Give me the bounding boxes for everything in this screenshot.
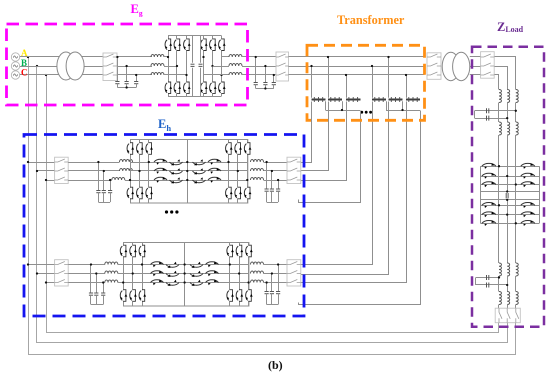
- wire secondary W2c to Eh row2: [301, 102, 407, 283]
- wire secondary W1a to Eh row1: [301, 102, 312, 163]
- svg-text:(b): (b): [268, 358, 283, 372]
- wire phase C return (source C to load bottom): [47, 75, 499, 333]
- wire Eh row feeders: [28, 264, 55, 266]
- load inductor L4c: [516, 292, 518, 305]
- wire to load rectifier: [498, 135, 500, 263]
- inductor Lc2: [229, 73, 242, 75]
- load inductor L4a: [499, 292, 501, 305]
- wire secondary W2a to Eh row2: [301, 102, 373, 265]
- Eh boundary box: [24, 135, 304, 317]
- wire inductor to cell: [118, 264, 123, 266]
- svg-text:Eh: Eh: [158, 117, 171, 133]
- wire winding common bus 2: [386, 101, 388, 110]
- node source C tap: [45, 74, 47, 76]
- load inductor L2b: [507, 122, 509, 135]
- load inductor L2c: [516, 122, 518, 135]
- wire secondary W1 neutral to Eh row1: [299, 111, 361, 203]
- circuit breaker CB5 (load bottom): [495, 308, 520, 323]
- bidirectional switches row 2 (left cell): [151, 270, 164, 276]
- load inductor L2a: [499, 122, 501, 135]
- rectifier leg 2 (Eg): [176, 36, 178, 96]
- inductor La1: [151, 55, 164, 57]
- diode cell row 4 left: [480, 205, 539, 207]
- load inductor L1a: [499, 90, 501, 103]
- bidirectional switches row 1 (right cell): [190, 262, 203, 268]
- wire winding W5 tap: [388, 57, 390, 98]
- wire to rectifier: [164, 56, 168, 58]
- load rectifier left rail: [480, 166, 482, 223]
- bidirectional switches row 2 (left cell): [154, 168, 167, 174]
- svg-text:A: A: [21, 48, 28, 58]
- bidirectional switches row 3 (right cell): [190, 280, 203, 286]
- circuit breaker CB2: [276, 52, 289, 81]
- circuit breaker (Eh row right): [287, 260, 301, 286]
- inductor Lc1: [151, 73, 164, 75]
- IGBT leg (Eh row left cell, col 3): [148, 140, 150, 204]
- bidirectional switches row 1 (right cell): [193, 159, 206, 165]
- bidirectional switches row 2 (right cell): [193, 168, 206, 174]
- load inductor L3b: [507, 263, 509, 276]
- diode cell row 5 left: [480, 214, 539, 216]
- diode cell row 6 right: [521, 220, 535, 226]
- wire load phase A: [495, 57, 516, 90]
- filter capacitors (Eh row right): [278, 265, 280, 292]
- wire secondary W1c to Eh row1: [301, 102, 347, 181]
- inverter leg 2 (Eg): [212, 36, 214, 96]
- load capacitor bank 1: [475, 110, 516, 112]
- filter capacitors (Eh row right): [266, 162, 268, 189]
- rectifier leg 1 (Eg): [168, 36, 170, 96]
- Transformer boundary box: [307, 45, 425, 120]
- converter cell modules (Eh row): [124, 243, 249, 307]
- diode cell row 1 left: [480, 166, 539, 168]
- transformer winding W5: [389, 97, 403, 102]
- transformer winding W3: [346, 97, 361, 102]
- inductor Lb1: [151, 64, 164, 66]
- svg-text:Eg: Eg: [131, 2, 143, 18]
- inverter leg 1 (Eg): [203, 36, 205, 96]
- transformer T1 (grid): [57, 52, 84, 80]
- diode cell row 2 right: [521, 173, 535, 179]
- Z_Load boundary box: [472, 47, 544, 327]
- wire secondary W2b to Eh row2: [301, 102, 389, 275]
- transformer winding W4: [372, 97, 386, 102]
- bidirectional switches row 2 (right cell): [190, 271, 203, 277]
- wire primary phase B (transformer box): [289, 66, 425, 68]
- svg-text:C: C: [21, 68, 28, 78]
- diode cell row 3 right: [521, 181, 535, 187]
- wire Eg output to PCC: [242, 56, 276, 58]
- arm inductors (Eh row right): [251, 160, 264, 162]
- diode cell row 2 left: [480, 176, 539, 178]
- wire to right breaker (Eh row): [264, 264, 288, 266]
- transformer winding W6: [406, 97, 420, 102]
- arm inductors (Eh row left): [120, 160, 133, 162]
- wire breaker to cell (Eh row): [68, 162, 119, 164]
- diode cell row 4 right: [521, 202, 535, 208]
- wire below load rectifier: [506, 190, 508, 192]
- AC source A: [11, 53, 19, 61]
- load inductor L4b: [507, 292, 509, 305]
- phase lines through cells: [130, 162, 247, 164]
- wire winding common bus 1: [325, 101, 327, 110]
- IGBT leg (Eh row left cell, col 1): [130, 140, 132, 204]
- load rectifier right rail: [539, 166, 541, 223]
- diode cell row 1 right: [521, 163, 535, 169]
- wire winding W2 tap: [328, 57, 330, 98]
- wire Eh row feeders: [28, 162, 55, 164]
- wire phase A (Eg chain): [19, 56, 152, 58]
- IGBT leg (Eh row left cell, col 1): [123, 242, 125, 306]
- svg-text:B: B: [21, 58, 27, 68]
- IGBT leg (Eh row right cell, col 2): [239, 242, 241, 306]
- inductor Lb2: [229, 64, 242, 66]
- ellipsis (more Eh rows): [165, 210, 179, 213]
- circuit breaker (Eh row left): [55, 260, 69, 286]
- arm inductors (Eh row left): [105, 262, 118, 264]
- transformer winding W1: [312, 97, 326, 102]
- wire winding W4 tap: [372, 66, 374, 98]
- IGBT leg (Eh row right cell, col 3): [248, 242, 250, 306]
- wire primary phase C (transformer box): [289, 74, 425, 76]
- ellipsis (more windings): [360, 111, 372, 114]
- wire inverter output C: [204, 74, 230, 76]
- svg-text:Transformer: Transformer: [337, 13, 405, 27]
- wire load phase C: [495, 75, 499, 90]
- Eg boundary box: [7, 24, 248, 105]
- arm inductors (Eh row right): [251, 262, 264, 264]
- node source A tap: [27, 56, 29, 58]
- circuit breaker (Eh row left): [55, 157, 69, 183]
- IGBT leg (Eh row left cell, col 3): [142, 242, 144, 306]
- wire inductor to cell: [130, 162, 133, 164]
- IGBT leg (Eh row left cell, col 2): [132, 242, 134, 306]
- wire secondary W1b to Eh row1: [301, 102, 329, 171]
- IGBT leg (Eh row right cell, col 1): [228, 140, 230, 204]
- wire winding W6 tap: [406, 75, 408, 98]
- wire secondary W2 neutral to Eh row2: [299, 111, 421, 305]
- bidirectional switches row 3 (right cell): [193, 177, 206, 183]
- rectifier leg 3 (Eg): [186, 36, 188, 96]
- inverter leg 3 (Eg): [221, 36, 223, 96]
- diode cell row 6 left: [480, 223, 539, 225]
- wire load phase B: [495, 67, 508, 90]
- load inductor L1b: [507, 90, 509, 103]
- wire phase A return (source A to load bottom): [29, 57, 516, 355]
- circuit breaker CB1: [103, 53, 117, 81]
- node source B tap: [36, 65, 38, 67]
- wire inverter output A: [222, 56, 230, 58]
- transformer winding W2: [328, 97, 342, 102]
- IGBT leg (Eh row right cell, col 2): [237, 140, 239, 204]
- inductor La2: [229, 55, 242, 57]
- wire primary phase A (transformer box): [289, 56, 425, 58]
- diode cell row 3 left: [480, 184, 539, 186]
- DC-link capacitor C2 (Eg): [200, 36, 202, 63]
- load capacitor bank 2: [498, 276, 500, 292]
- load inductor L3a: [499, 263, 501, 276]
- load inductor L3c: [516, 263, 518, 276]
- wire phase B (Eg chain): [19, 66, 152, 68]
- circuit breaker CB3: [427, 53, 441, 80]
- wire breaker to cell (Eh row): [68, 264, 105, 266]
- bidirectional switches row 1 (left cell): [154, 159, 167, 165]
- diode cell row 5 right: [521, 212, 535, 218]
- bidirectional switches row 3 (left cell): [154, 177, 167, 183]
- converter DC bus rails (Eg): [168, 35, 222, 37]
- wire inverter output B: [213, 66, 230, 68]
- wire winding W3 tap: [346, 75, 348, 98]
- wire into bottom breaker: [498, 305, 500, 309]
- filter capacitors (Eh row left): [90, 265, 92, 294]
- load DC link: [480, 191, 539, 193]
- converter cell modules (Eh row): [131, 140, 248, 204]
- filter capacitors (Eh row left): [98, 162, 100, 191]
- wire winding W1 tap: [311, 66, 313, 98]
- wire to right breaker (Eh row): [264, 162, 288, 164]
- wire phase C (Eg chain): [19, 74, 152, 76]
- filter capacitor bank 2 (PCC): [255, 57, 257, 83]
- load inductor L1c: [516, 90, 518, 103]
- IGBT leg (Eh row right cell, col 3): [247, 140, 249, 204]
- filter capacitor bank 1: [117, 57, 119, 82]
- AC source C: [11, 71, 19, 79]
- IGBT leg (Eh row right cell, col 1): [229, 242, 231, 306]
- bidirectional switches row 3 (left cell): [151, 279, 164, 285]
- AC source B: [11, 62, 19, 70]
- circuit breaker CB4 (load input): [470, 56, 481, 58]
- svg-text:ZLoad: ZLoad: [497, 20, 524, 34]
- wire phase B return (source B to load bottom): [37, 67, 508, 343]
- IGBT leg (Eh row left cell, col 2): [139, 140, 141, 204]
- bidirectional switches row 1 (left cell): [151, 261, 164, 267]
- transformer T2 (load side): [442, 52, 470, 80]
- circuit breaker (Eh row right): [287, 157, 301, 183]
- phase lines through cells: [123, 264, 248, 266]
- DC-link capacitor C1 (Eg): [192, 36, 194, 63]
- wire load verticals 1: [498, 103, 500, 123]
